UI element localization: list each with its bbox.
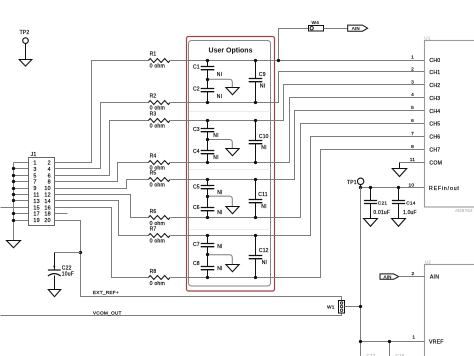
capacitor C2 (NI) (193, 80, 222, 103)
svg-text:C8: C8 (193, 261, 200, 267)
resistor R6 0 ohm (148, 209, 170, 227)
svg-text:C12: C12 (259, 248, 269, 254)
svg-text:R2: R2 (150, 93, 157, 99)
svg-text:0 ohm: 0 ohm (150, 238, 165, 244)
wire C5/C6 midpoint to ground (207, 196, 232, 206)
svg-text:7: 7 (411, 131, 414, 137)
svg-text:REFin/out: REFin/out (429, 186, 460, 192)
junctions on rails section 2 (206, 119, 257, 164)
svg-text:NI: NI (217, 72, 222, 78)
svg-text:10uF: 10uF (62, 271, 74, 277)
wire net CH6 (R7 rail to U1 pin 7) (171, 137, 425, 236)
svg-text:NI: NI (217, 210, 222, 216)
svg-text:11: 11 (33, 193, 39, 199)
wire net CH0 rail (R1 to U1 pin 1) (171, 60, 425, 62)
svg-text:NI: NI (213, 133, 218, 139)
svg-text:NI: NI (217, 190, 222, 196)
wire J1 pin11 stub (14, 194, 29, 196)
wire J1 pin19 stub (14, 220, 29, 222)
wire J1 pin14 to R7 (55, 201, 149, 236)
svg-text:C2: C2 (193, 87, 200, 93)
junction C1/C2 midpoint (206, 78, 209, 81)
net flag AIN (top) (348, 25, 368, 31)
svg-text:C14: C14 (406, 201, 416, 207)
wire J1 pin6 to R3 (55, 121, 149, 176)
wire J1 pin18 stub (55, 213, 68, 215)
svg-text:R5: R5 (150, 171, 157, 177)
svg-text:0 ohm: 0 ohm (150, 64, 165, 70)
junction C5/C6 midpoint (206, 195, 209, 198)
capacitor C4 (NI) (193, 140, 219, 163)
wire net CH1 (R2 rail to U1 pin 2) (171, 72, 425, 103)
capacitor C11 (NI) (249, 180, 268, 218)
svg-text:AIN: AIN (352, 26, 360, 31)
junction C14 on REF wire (397, 186, 400, 189)
capacitor C9 (NI) (249, 61, 266, 103)
svg-text:CH3: CH3 (429, 96, 440, 102)
svg-text:8: 8 (411, 144, 414, 150)
resistor R7 0 ohm (148, 226, 170, 244)
svg-text:1.0uF: 1.0uF (403, 210, 417, 216)
svg-text:CH4: CH4 (429, 109, 440, 115)
svg-text:C4: C4 (193, 149, 200, 155)
svg-text:AD5762: AD5762 (455, 208, 473, 213)
jumper W4 (309, 26, 324, 32)
resistor R4 0 ohm (148, 154, 170, 172)
user options inner gray box (189, 41, 271, 287)
svg-text:AIN: AIN (384, 275, 392, 280)
capacitor C21 0.01uF (364, 188, 390, 219)
svg-text:11: 11 (410, 157, 416, 163)
svg-text:15: 15 (33, 205, 39, 211)
svg-text:CH0: CH0 (429, 58, 440, 64)
svg-text:W1: W1 (327, 305, 335, 311)
svg-text:18: 18 (44, 212, 50, 218)
ground below J1 bus (7, 241, 21, 248)
svg-text:C22: C22 (62, 265, 72, 271)
svg-text:C6: C6 (193, 205, 200, 211)
capacitor C22 10uF polarized (48, 253, 74, 290)
svg-text:R8: R8 (150, 269, 157, 275)
svg-text:16: 16 (44, 205, 50, 211)
wire VCOM_OUT to W1 bottom pin (1, 313, 342, 316)
wire stub to bottom capacitor (clipped) (389, 342, 391, 356)
svg-text:10: 10 (44, 186, 50, 192)
svg-text:2: 2 (48, 161, 51, 167)
wire J1 ground bus vertical (13, 163, 15, 241)
svg-text:EXT_REF+: EXT_REF+ (93, 290, 119, 296)
ground for C1/C2 (226, 88, 239, 95)
svg-text:R6: R6 (150, 209, 157, 215)
wire J1 pin20 to C22 junction and EXT_REF+ rail (55, 221, 342, 301)
svg-text:R1: R1 (150, 52, 157, 58)
svg-text:C7: C7 (193, 242, 200, 248)
test point TP1 (347, 178, 364, 187)
junction TP1 on REF wire (359, 186, 362, 189)
svg-text:4: 4 (411, 92, 414, 98)
svg-text:2: 2 (411, 66, 414, 72)
junction C7/C8 midpoint (206, 253, 209, 256)
wire J1 pin5 stub (14, 175, 29, 177)
User Options red highlight box (187, 37, 275, 292)
junction VREF/TP1 vertical (359, 340, 362, 343)
net flag AIN (bottom) (380, 274, 399, 280)
wire C7/C8 midpoint to ground (207, 255, 232, 265)
svg-text:19: 19 (33, 218, 39, 224)
svg-text:NI: NI (260, 84, 265, 90)
svg-text:NI: NI (217, 266, 222, 272)
wire J1 pin13 stub (14, 200, 29, 202)
svg-text:U1: U1 (424, 36, 431, 41)
wire C3/C4 midpoint to ground (207, 140, 232, 149)
svg-text:0 ohm: 0 ohm (150, 123, 165, 129)
ground below C22 (48, 290, 60, 297)
wire J1 pin17 stub (14, 213, 29, 215)
ground on COM pin (392, 163, 406, 177)
IC U2 body (425, 265, 474, 356)
wire J1 pin3 stub (14, 168, 29, 170)
junction W1/vertical (359, 305, 362, 308)
wire net CH3 (R4 rail to U1 pin 4) (171, 98, 425, 163)
wire W4 to AIN flag (324, 28, 348, 30)
svg-text:6: 6 (48, 173, 51, 179)
svg-text:4: 4 (48, 167, 51, 173)
svg-text:U2: U2 (425, 260, 432, 265)
junctions on rails section 4 (206, 234, 257, 279)
junction C21 on REF wire (369, 186, 372, 189)
wire net CH4 (R5 rail to U1 pin 5) (171, 111, 425, 180)
ground below C21 (364, 219, 378, 227)
wire net CH5 (R6 rail to U1 pin 6) (171, 124, 425, 218)
svg-text:C21: C21 (378, 201, 388, 207)
labels of clipped bottom capacitors (367, 353, 405, 356)
capacitor C10 (NI) (249, 121, 269, 163)
svg-text:C3: C3 (193, 127, 200, 133)
ground below C14 (392, 219, 406, 227)
svg-text:+: + (53, 264, 56, 269)
svg-text:1: 1 (411, 55, 414, 61)
svg-text:R4: R4 (150, 154, 157, 160)
ground below TP2 (19, 60, 32, 67)
wire J1 pin9 stub (14, 188, 29, 190)
ground for C3/C4 (226, 149, 239, 156)
svg-text:CH1: CH1 (429, 70, 440, 76)
wire W4 to CH0 rail (279, 29, 309, 61)
IC U1 AD5762 body (425, 41, 474, 208)
svg-text:User Options: User Options (209, 48, 253, 55)
resistor R3 0 ohm (148, 111, 170, 129)
junction on bus at pin19 (12, 219, 15, 222)
capacitor C1 (NI) (193, 61, 222, 80)
svg-text:NI: NI (261, 145, 266, 151)
svg-text:7: 7 (33, 180, 36, 186)
svg-text:3: 3 (33, 167, 36, 173)
wire J1 pin2 to R1 (55, 61, 149, 163)
junction on bus at pin13 (12, 199, 15, 202)
capacitor C6 (NI) (193, 197, 223, 218)
svg-text:NI: NI (217, 244, 222, 250)
svg-text:9: 9 (33, 186, 36, 192)
junction on bus at pin5 (12, 174, 15, 177)
jumper W1 (3-pin) (339, 301, 345, 314)
junction on bus at pin7 (12, 180, 15, 183)
svg-text:R7: R7 (150, 226, 157, 232)
svg-text:1: 1 (33, 161, 36, 167)
capacitor C5 (NI) (193, 180, 223, 197)
svg-text:8: 8 (48, 180, 51, 186)
svg-text:VREF: VREF (429, 339, 444, 345)
resistor R8 0 ohm (148, 269, 170, 287)
ground for C7/C8 (226, 265, 239, 272)
junctions on rails section 1 (206, 59, 257, 104)
svg-text:14: 14 (44, 199, 50, 205)
svg-text:C10: C10 (259, 134, 269, 140)
svg-text:R3: R3 (150, 111, 157, 117)
svg-text:W4: W4 (311, 20, 319, 26)
svg-text:12: 12 (44, 193, 50, 199)
svg-text:CH7: CH7 (429, 147, 440, 153)
svg-text:0 ohm: 0 ohm (150, 281, 165, 287)
svg-text:6: 6 (411, 118, 414, 124)
svg-text:CH2: CH2 (429, 83, 440, 89)
wire C1/C2 midpoint to ground (207, 79, 232, 88)
wire J1 pin15 off-page wire from left edge (1, 207, 29, 209)
svg-text:NI: NI (261, 204, 266, 210)
svg-text:2: 2 (412, 271, 415, 277)
faint section divider 2 (189, 169, 271, 171)
wire J1 pin12 to R6 (55, 195, 149, 218)
svg-text:AIN: AIN (430, 275, 439, 281)
svg-text:3: 3 (411, 79, 414, 85)
svg-text:CH6: CH6 (429, 135, 440, 141)
svg-text:10: 10 (409, 182, 415, 188)
capacitor C3 (NI) (193, 121, 219, 140)
faint section divider 1 (189, 111, 271, 113)
svg-text:5: 5 (33, 173, 36, 179)
svg-text:C1: C1 (193, 65, 200, 71)
resistor R2 0 ohm (148, 93, 170, 111)
junction C3/C4 midpoint (206, 138, 209, 141)
faint section divider 3 (189, 229, 271, 231)
svg-text:5: 5 (411, 105, 414, 111)
wire J1 pin4 to R2 (55, 103, 149, 169)
junction on bus at pin9 (12, 187, 15, 190)
svg-text:COM: COM (429, 160, 442, 166)
wire J1 pin10 to R5 (55, 180, 149, 189)
resistor R5 0 ohm (148, 171, 170, 189)
wire U1 COM pin 11 (400, 162, 425, 164)
svg-text:CH5: CH5 (429, 122, 440, 128)
svg-text:1: 1 (412, 335, 415, 341)
junction stub on VREF wire (388, 340, 391, 343)
connector J1 body (29, 158, 55, 226)
svg-text:0.01uF: 0.01uF (373, 210, 390, 216)
svg-text:20: 20 (44, 218, 50, 224)
svg-text:NI: NI (217, 94, 222, 100)
svg-text:17: 17 (33, 212, 39, 218)
svg-text:TP1: TP1 (347, 180, 357, 186)
capacitor C12 (NI) (249, 236, 269, 278)
wire VREF net to U2 pin 1 (361, 341, 425, 343)
svg-text:TP2: TP2 (20, 30, 30, 36)
svg-text:NI: NI (262, 260, 267, 266)
wire J1 pin1 stub (14, 162, 29, 164)
junctions on rails section 3 (206, 178, 257, 219)
svg-text:0 ohm: 0 ohm (150, 183, 165, 189)
capacitor C7 (NI) (193, 236, 223, 255)
test point TP2 (20, 30, 30, 59)
ground for C5/C6 (226, 207, 239, 214)
wire U1 REFin/out pin 10 to TP1 (361, 187, 425, 189)
wire net CH7 (R8 rail to U1 pin 8) (171, 150, 425, 278)
junction on bus at pin11 (12, 193, 15, 196)
junction on bus at pin3 (12, 167, 15, 170)
svg-text:C9: C9 (259, 72, 266, 78)
junction pin20/C22 (79, 251, 82, 254)
capacitor C14 1.0uF (392, 188, 417, 219)
wire TP1 vertical down to VREF net (360, 188, 362, 356)
wire W1 middle pin to VREF net (345, 306, 361, 308)
svg-text:13: 13 (33, 199, 39, 205)
wire J1 pin7 stub (14, 181, 29, 183)
svg-text:VCOM_OUT: VCOM_OUT (93, 311, 122, 317)
wire AIN flag to U2 pin 2 (399, 276, 425, 278)
junction on bus at pin17 (12, 212, 15, 215)
capacitor C8 (NI) (193, 255, 223, 278)
U1 pin names and numbers CH0-CH7 (411, 55, 440, 154)
svg-text:NI: NI (213, 155, 218, 161)
svg-text:C5: C5 (193, 184, 200, 190)
J1 pin numbers (33, 161, 50, 225)
svg-text:C11: C11 (258, 192, 267, 198)
wire J1 pin8 to R4 (55, 163, 149, 182)
resistor R1 0 ohm (148, 52, 170, 70)
svg-text:J1: J1 (31, 152, 37, 158)
wire J1 pin16 to R8 (55, 208, 149, 278)
wire net CH2 (R3 rail to U1 pin 3) (171, 85, 425, 121)
wire C22 tap (55, 252, 81, 254)
junction W4 wire on CH0 rail (277, 59, 280, 62)
